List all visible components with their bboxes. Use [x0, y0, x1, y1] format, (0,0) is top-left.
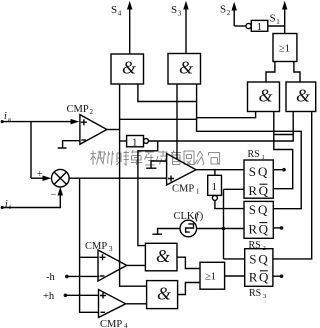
wire ia to CMP2 plus input: [2, 121, 72, 123]
svg-text:S: S: [111, 4, 117, 16]
inverter U2 box "1": [127, 136, 144, 147]
wire if to multiplier bottom: [2, 194, 60, 208]
wire and-gate B right input to RS2 Q feedback: [197, 84, 302, 209]
label RS1: [248, 149, 265, 161]
svg-text:3: 3: [109, 245, 113, 253]
svg-text:R: R: [248, 183, 257, 198]
svg-text:≥1: ≥1: [279, 44, 290, 55]
inverter U5 bubble: [246, 23, 251, 28]
wire inverter U3 output to RS2 S input: [215, 200, 244, 208]
label CMP1: [172, 184, 200, 196]
svg-text:&: &: [122, 58, 136, 78]
svg-text:3: 3: [263, 293, 266, 300]
node if input dot: [1, 206, 4, 209]
wire plus h to CMP4 plus input: [65, 294, 98, 296]
and-gate A box: [111, 54, 144, 84]
wire CMP2 output: [107, 129, 120, 131]
svg-text:≥1: ≥1: [205, 272, 216, 283]
wire CMP3 output to and-gate E: [127, 264, 146, 266]
svg-text:2: 2: [227, 9, 231, 17]
wire short jog near and-gate D stub: [274, 134, 293, 136]
flip-flop RS1 box: [244, 160, 273, 198]
svg-text:-h: -h: [46, 272, 55, 283]
svg-text:RS: RS: [249, 288, 261, 299]
and-gate F box: [147, 281, 178, 309]
svg-text:1: 1: [276, 18, 280, 26]
svg-text:CMP: CMP: [85, 241, 107, 252]
wire CMP1 output to RS1 S input: [196, 169, 244, 171]
wire S4 output arrow: [129, 8, 131, 55]
wire into multiplier left with arrow: [31, 177, 45, 179]
node plus h dot: [64, 294, 68, 298]
wire inverter U2 output long line to and-gate D left input: [148, 112, 293, 142]
label minus h: [46, 272, 55, 283]
wire S1 output arrow: [284, 8, 286, 34]
wire to RS1 R input: [224, 188, 245, 190]
svg-text:+h: +h: [43, 291, 55, 302]
wire to RS3 S input: [224, 258, 245, 260]
summing minus label: [51, 190, 57, 201]
and-gate B box: [168, 54, 201, 85]
wire inverter U2 branch down to and-gate E upper input: [138, 141, 158, 246]
svg-text:3: 3: [178, 10, 182, 18]
ground at CMP2 minus input: [58, 141, 80, 148]
svg-text:Q: Q: [259, 270, 269, 285]
svg-text:S: S: [220, 4, 226, 16]
wire or-gate G output to RS3 R input: [225, 275, 245, 277]
label S3: [171, 4, 182, 18]
svg-text:S: S: [171, 4, 177, 16]
svg-text:Q: Q: [258, 202, 268, 217]
and-gate C box: [248, 82, 280, 112]
wire RS1 Qbar feedback loop to and-gate C right input: [273, 112, 292, 189]
and-gate E box: [145, 243, 177, 270]
wire clock right to RS2 R input: [197, 228, 244, 230]
wire minus h to CMP3 minus input: [67, 275, 100, 277]
svg-text:1: 1: [132, 137, 138, 149]
flip-flop RS2 box: [244, 201, 273, 238]
node minus h dot: [65, 275, 69, 279]
wire and-gate B left input stub: [176, 84, 178, 159]
comparator CMP1 triangle: [167, 154, 196, 186]
label RS2: [249, 240, 266, 252]
wire S2 to inverter bubble: [234, 25, 246, 27]
label S2: [220, 4, 231, 18]
svg-text:4: 4: [124, 322, 128, 328]
inverter U5 box "1": [251, 20, 267, 31]
svg-text:S: S: [249, 164, 256, 179]
CMP1 minus input wire and ground: [146, 161, 166, 168]
wire multiplier output to CMP1 plus input: [69, 177, 167, 179]
CMP2 minus sign: [81, 139, 86, 141]
wire main vertical from and-gate A to and-gate F input: [120, 84, 147, 286]
svg-text:i: i: [4, 111, 7, 122]
inverter U2 input wire: [120, 140, 127, 142]
svg-text:i: i: [5, 199, 8, 210]
wire ia branch down to summing node: [30, 122, 32, 179]
flip-flop RS3 box: [245, 249, 273, 287]
wire RS1 Q output with dot: [273, 169, 284, 171]
comparator CMP3 triangle: [98, 250, 127, 281]
label plus h: [43, 291, 55, 302]
summing plus label: [37, 169, 43, 180]
label CMP4: [100, 319, 128, 328]
label S4: [111, 4, 122, 18]
label RS3: [249, 288, 266, 300]
CMP4 minus sign: [101, 311, 106, 313]
svg-text:&: &: [157, 283, 171, 303]
svg-text:1: 1: [212, 181, 218, 193]
svg-text:Q: Q: [258, 251, 268, 266]
comparator CMP2 triangle: [80, 115, 107, 145]
svg-text:&: &: [156, 246, 170, 266]
svg-text:CMP: CMP: [67, 104, 89, 115]
clock waveform glyph: [186, 224, 194, 232]
svg-text:S: S: [249, 251, 256, 266]
svg-text:Q: Q: [258, 164, 268, 179]
svg-text:&: &: [296, 86, 310, 106]
wire and-gate E output to or-gate G: [177, 257, 200, 268]
inverter U2 bubble: [144, 139, 149, 144]
label ia: [4, 111, 11, 123]
wire and-gate A right input down-right: [138, 84, 197, 102]
clock source circle: [180, 220, 197, 237]
CMP3 plus sign: [100, 254, 106, 260]
wire inverter U5 output to S1 line: [268, 25, 285, 27]
CMP4 plus sign: [100, 293, 106, 299]
watermark: [91, 150, 220, 165]
or-gate H box: [273, 34, 297, 62]
wire H output left leg to and-gate C: [266, 62, 275, 83]
node ia input dot: [1, 120, 4, 123]
and-gate D box: [286, 82, 316, 112]
svg-text:&: &: [259, 86, 273, 106]
wire S3 output arrow: [185, 8, 187, 54]
svg-text:1: 1: [257, 21, 263, 33]
svg-text:Q: Q: [259, 183, 269, 198]
wire branch down to inverter U3: [214, 170, 216, 176]
wire CMP4 output to and-gate F: [126, 303, 147, 305]
multiplier M1 cross: [54, 172, 66, 184]
label CMP2: [67, 104, 94, 116]
svg-text:−: −: [51, 190, 57, 201]
svg-text:R: R: [248, 222, 257, 237]
wire and-gate F output to or-gate G: [178, 283, 200, 295]
svg-text:CMP: CMP: [172, 184, 194, 195]
svg-text:CMP: CMP: [100, 319, 122, 328]
label S1: [270, 13, 281, 27]
svg-text:): ): [200, 211, 204, 222]
wire S2 output arrow: [233, 9, 235, 27]
wire RS2 Qbar output with dot: [273, 227, 281, 229]
svg-text:S: S: [270, 13, 276, 25]
wire RS3 Qbar output with dot: [273, 275, 282, 277]
label CMP3: [85, 241, 113, 253]
wire H output right leg to and-gate D: [294, 62, 300, 83]
multiplier M1 circle: [52, 169, 70, 187]
svg-text:&: &: [179, 57, 193, 77]
label CLK(f): [174, 211, 204, 222]
svg-text:R: R: [249, 270, 258, 285]
svg-text:4: 4: [118, 10, 122, 18]
svg-text:S: S: [249, 202, 256, 217]
comparator CMP4 triangle: [99, 290, 126, 318]
CMP3 minus sign: [100, 275, 105, 277]
inverter U3 box "1": [208, 175, 222, 195]
wire RS3 Q output to and-gate D right input: [273, 112, 312, 259]
svg-text:RS: RS: [248, 149, 260, 160]
svg-text:2: 2: [90, 108, 94, 116]
wire error vertical to CMP3 and CMP4: [80, 178, 99, 312]
or-gate G box: [200, 262, 225, 289]
svg-text:Q: Q: [259, 222, 269, 237]
label if: [5, 199, 12, 211]
wire clock left to ground: [152, 229, 180, 235]
wire clock branch vertical: [223, 189, 225, 259]
CMP2 plus sign: [81, 119, 87, 125]
inverter U3 bubble: [212, 195, 217, 200]
CMP1 plus sign: [168, 176, 174, 182]
svg-text:1: 1: [196, 188, 200, 196]
wire branch to and-gate C lower-left input: [120, 112, 256, 120]
node clock junction dot: [222, 227, 226, 231]
